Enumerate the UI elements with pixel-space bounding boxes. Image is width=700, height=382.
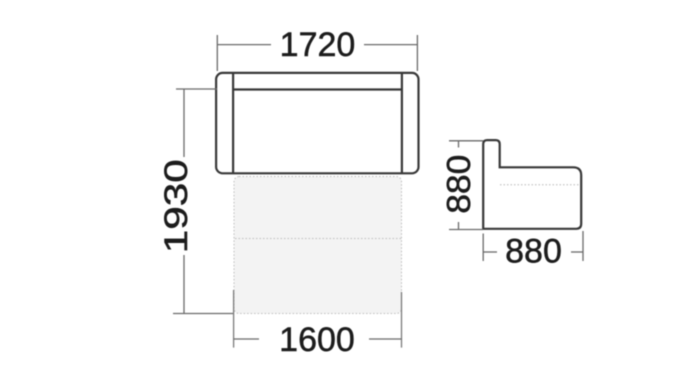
side dimension 880 extension line top — [449, 140, 483, 142]
sofa outline — [216, 73, 418, 173]
dimension 1930 line bottom segment — [183, 255, 185, 314]
svg-text:880: 880 — [441, 155, 478, 214]
dimension 1720 extension line right — [416, 35, 418, 71]
svg-text:880: 880 — [505, 233, 562, 271]
svg-text:1720: 1720 — [280, 26, 356, 64]
dimension 1600 line left segment — [234, 338, 259, 340]
dimension 1600 extension line right — [401, 292, 403, 348]
side view profile — [483, 140, 581, 229]
armrest right inner edge — [401, 74, 403, 173]
dimension 1720 line right segment — [364, 44, 417, 46]
dimension 1930 extension line top — [176, 88, 217, 90]
side dimension 880 line bottom segment — [458, 222, 460, 230]
dimension 1720 extension line left — [216, 35, 218, 71]
armrest left inner edge — [232, 74, 234, 173]
depth dimension 880 extension line right — [582, 231, 584, 261]
dimension 1600 line right segment — [369, 338, 402, 340]
side dimension 880 line top segment — [458, 141, 460, 148]
dimension 1930 line top segment — [183, 89, 185, 157]
depth dimension 880 line right segment — [571, 251, 583, 253]
backrest line — [233, 88, 402, 90]
svg-text:1930: 1930 — [158, 159, 194, 253]
dimension 1720 line left segment — [217, 44, 271, 46]
dimension 1600 extension line left — [233, 290, 235, 348]
svg-text:1600: 1600 — [279, 321, 355, 359]
bed extension shaded panel — [234, 177, 402, 314]
dimension 1930 extension line bottom — [173, 313, 234, 315]
side dimension 880 extension line bottom — [449, 229, 483, 231]
depth dimension 880 extension line left — [482, 234, 484, 262]
bed fold divider — [235, 238, 401, 240]
side view seat cushion dotted line — [500, 184, 580, 186]
depth dimension 880 line left segment — [483, 251, 497, 253]
